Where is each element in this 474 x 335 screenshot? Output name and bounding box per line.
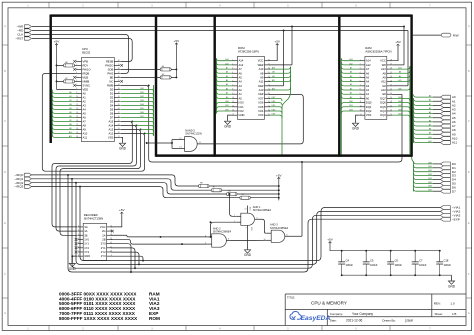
- svg-text:D4: D4: [110, 103, 114, 107]
- svg-text:A0: A0: [350, 96, 352, 99]
- svg-text:D7: D7: [110, 115, 114, 119]
- svg-text:13: 13: [110, 238, 112, 240]
- svg-text:A3: A3: [350, 83, 352, 86]
- svg-text:D: D: [468, 171, 470, 174]
- svg-text:2Y1: 2Y1: [101, 246, 106, 250]
- svg-text:SN74HC132N: SN74HC132N: [185, 131, 202, 135]
- svg-text:+5V: +5V: [119, 208, 126, 212]
- svg-text:A11: A11: [398, 79, 401, 82]
- svg-text:DB0: DB0: [140, 88, 144, 90]
- svg-text:13: 13: [360, 110, 362, 112]
- svg-text:DB5: DB5: [140, 108, 144, 110]
- svg-text:A4: A4: [226, 79, 228, 82]
- svg-text:A11: A11: [69, 135, 72, 138]
- svg-text:17: 17: [76, 124, 78, 126]
- svg-text:100nF: 100nF: [346, 263, 354, 267]
- svg-text:+5V: +5V: [274, 40, 281, 44]
- svg-text:2G: 2G: [102, 229, 106, 233]
- svg-text:A8: A8: [399, 71, 401, 74]
- svg-text:W#: W#: [382, 63, 387, 67]
- svg-text:A7: A7: [239, 67, 243, 71]
- svg-text:EasyEDA: EasyEDA: [301, 315, 331, 322]
- svg-text:WE#: WE#: [258, 63, 264, 67]
- svg-text:SYNC: SYNC: [83, 83, 91, 87]
- svg-text:23: 23: [390, 80, 392, 82]
- svg-text:2: 2: [234, 221, 235, 223]
- svg-text:6: 6: [228, 239, 229, 241]
- svg-text:14: 14: [76, 112, 78, 114]
- svg-text:D1: D1: [110, 91, 114, 95]
- svg-text:6: 6: [360, 80, 361, 82]
- svg-text:27: 27: [390, 63, 392, 65]
- svg-text:4: 4: [360, 72, 361, 74]
- svg-text:A9: A9: [69, 127, 71, 130]
- svg-text:16: 16: [110, 226, 112, 228]
- svg-text:I/O2: I/O2: [239, 109, 245, 113]
- svg-text:A9: A9: [429, 132, 431, 135]
- svg-text:DB4: DB4: [428, 178, 432, 180]
- svg-text:C: C: [468, 120, 470, 123]
- svg-text:21: 21: [118, 136, 120, 138]
- svg-text:13: 13: [179, 147, 181, 149]
- svg-text:21: 21: [390, 89, 392, 91]
- svg-text:28: 28: [118, 108, 120, 110]
- svg-text:A15: A15: [109, 119, 114, 123]
- svg-text:A10: A10: [381, 88, 386, 92]
- svg-text:9: 9: [76, 92, 77, 94]
- svg-text:A9: A9: [272, 75, 274, 78]
- svg-text:D: D: [4, 171, 6, 174]
- svg-text:DB0: DB0: [349, 101, 353, 103]
- svg-text:NC: NC: [109, 79, 113, 83]
- svg-text:1Y1: 1Y1: [84, 242, 89, 246]
- svg-text:A9: A9: [383, 75, 387, 79]
- svg-text:ROM: ROM: [149, 316, 160, 321]
- svg-text:A1: A1: [69, 95, 71, 98]
- svg-text:A9: A9: [260, 75, 264, 79]
- svg-text:A6: A6: [69, 115, 71, 118]
- svg-text:IRQB: IRQB: [83, 71, 90, 75]
- svg-text:TITLE:: TITLE:: [287, 296, 295, 300]
- svg-text:10: 10: [232, 97, 234, 99]
- svg-text:E#: E#: [383, 92, 387, 96]
- svg-text:A4: A4: [350, 79, 352, 82]
- svg-text:1Y3: 1Y3: [84, 250, 89, 254]
- svg-text:DB2: DB2: [140, 96, 144, 98]
- svg-text:8: 8: [232, 89, 233, 91]
- svg-text:15: 15: [76, 116, 78, 118]
- svg-text:15: 15: [268, 114, 270, 116]
- svg-text:5: 5: [232, 76, 233, 78]
- svg-text:PHI2O: PHI2O: [105, 63, 113, 67]
- svg-text:A6: A6: [366, 71, 370, 75]
- svg-text:65C02: 65C02: [82, 51, 91, 55]
- svg-text:20: 20: [76, 136, 78, 138]
- svg-text:30: 30: [118, 100, 120, 102]
- svg-text:A3: A3: [366, 84, 370, 88]
- svg-text:A8: A8: [69, 123, 71, 126]
- svg-text:GND: GND: [69, 267, 77, 271]
- svg-text:DQ2: DQ2: [366, 109, 372, 113]
- svg-text:+5V: +5V: [174, 39, 181, 43]
- svg-text:GND: GND: [448, 284, 456, 288]
- svg-text:GND: GND: [224, 125, 232, 129]
- svg-text:DB0: DB0: [225, 101, 229, 103]
- svg-text:VPB: VPB: [83, 59, 89, 63]
- svg-text:10: 10: [110, 251, 112, 253]
- svg-text:DB3: DB3: [140, 100, 144, 102]
- svg-text:A6: A6: [83, 115, 87, 119]
- svg-text:C6: C6: [395, 259, 399, 263]
- svg-text:A12: A12: [225, 62, 228, 65]
- svg-text:I/O5: I/O5: [258, 105, 264, 109]
- svg-text:DB1: DB1: [225, 105, 229, 107]
- svg-text:Drawn By:: Drawn By:: [382, 319, 396, 323]
- svg-text:SN74HC08NE4: SN74HC08NE4: [253, 208, 272, 212]
- svg-text:jzaun: jzaun: [405, 319, 414, 323]
- svg-text:24: 24: [390, 76, 392, 78]
- svg-text:DQ5: DQ5: [380, 105, 386, 109]
- svg-text:8: 8: [78, 255, 79, 257]
- svg-text:A13: A13: [381, 67, 386, 71]
- svg-text:A1: A1: [83, 95, 87, 99]
- svg-text:12: 12: [179, 138, 181, 140]
- svg-text:1G: 1G: [84, 225, 88, 229]
- svg-text:BE: BE: [110, 75, 114, 79]
- svg-text:A8: A8: [260, 71, 264, 75]
- svg-text:A11: A11: [381, 80, 386, 84]
- svg-text:DB7: DB7: [428, 190, 432, 192]
- svg-text:12: 12: [232, 105, 234, 107]
- svg-text:7: 7: [360, 84, 361, 86]
- svg-text:22: 22: [390, 84, 392, 86]
- svg-text:+5V: +5V: [327, 238, 334, 242]
- svg-text:MLB: MLB: [83, 75, 89, 79]
- svg-text:A3: A3: [226, 83, 228, 86]
- svg-text:DB1: DB1: [428, 166, 432, 168]
- svg-text:1.0: 1.0: [450, 301, 455, 305]
- svg-text:A8: A8: [429, 128, 431, 131]
- svg-text:DB6: DB6: [272, 101, 276, 103]
- svg-text:DB7: DB7: [272, 97, 276, 99]
- svg-text:SN74HC08NE4: SN74HC08NE4: [270, 226, 289, 230]
- svg-text:A7: A7: [350, 66, 352, 69]
- svg-text:22: 22: [118, 132, 120, 134]
- svg-text:19: 19: [76, 132, 78, 134]
- svg-text:A7: A7: [83, 119, 87, 123]
- svg-text:2A: 2A: [102, 233, 105, 237]
- svg-text:A3: A3: [239, 84, 243, 88]
- svg-text:24: 24: [118, 124, 120, 126]
- svg-text:20: 20: [268, 93, 270, 95]
- svg-text:A7: A7: [366, 67, 370, 71]
- svg-text:GND: GND: [244, 253, 252, 257]
- svg-text:A11: A11: [272, 79, 275, 82]
- svg-text:A0: A0: [366, 96, 370, 100]
- svg-text:VSS: VSS: [366, 113, 372, 117]
- svg-text:11: 11: [232, 101, 234, 103]
- svg-text:A2: A2: [239, 88, 243, 92]
- svg-text:GND: GND: [119, 147, 127, 151]
- svg-text:DB3: DB3: [428, 174, 432, 176]
- svg-text:DB6: DB6: [428, 186, 432, 188]
- svg-text:17: 17: [268, 105, 270, 107]
- svg-text:18: 18: [76, 128, 78, 130]
- svg-text:A6: A6: [350, 71, 352, 74]
- svg-text:G: G: [4, 312, 6, 315]
- svg-text:VCC: VCC: [258, 59, 264, 63]
- svg-text:1A: 1A: [84, 229, 87, 233]
- svg-text:GND: GND: [352, 127, 360, 131]
- svg-text:9: 9: [265, 232, 266, 234]
- svg-text:14: 14: [110, 234, 112, 236]
- svg-text:28: 28: [268, 59, 270, 61]
- svg-text:~RST: ~RST: [15, 37, 23, 41]
- svg-text:DB4: DB4: [140, 104, 144, 106]
- svg-text:33: 33: [118, 88, 120, 90]
- svg-text:~IRQ3: ~IRQ3: [14, 185, 23, 189]
- svg-text:A10: A10: [272, 87, 275, 90]
- svg-text:G: G: [468, 312, 470, 315]
- svg-text:PHI1O: PHI1O: [83, 67, 91, 71]
- svg-text:6: 6: [232, 80, 233, 82]
- svg-text:A6: A6: [239, 71, 243, 75]
- svg-text:DQ3: DQ3: [380, 113, 386, 117]
- svg-text:A4: A4: [239, 80, 243, 84]
- svg-text:A7: A7: [69, 119, 71, 122]
- svg-text:A7: A7: [226, 66, 228, 69]
- svg-text:A12: A12: [239, 63, 244, 67]
- svg-text:3: 3: [232, 68, 233, 70]
- svg-text:DB1: DB1: [140, 92, 144, 94]
- svg-text:I/O7: I/O7: [258, 96, 264, 100]
- svg-text:A1: A1: [429, 99, 431, 102]
- svg-text:AT28C256-15PU: AT28C256-15PU: [238, 50, 259, 54]
- svg-text:A14: A14: [366, 59, 371, 63]
- svg-text:19: 19: [390, 97, 392, 99]
- svg-text:11: 11: [110, 246, 112, 248]
- svg-text:DB5: DB5: [428, 182, 432, 184]
- svg-text:VCC: VCC: [380, 59, 386, 63]
- svg-text:DB2: DB2: [225, 109, 229, 111]
- svg-text:18: 18: [390, 101, 392, 103]
- svg-text:2: 2: [76, 64, 77, 66]
- svg-text:C5: C5: [370, 259, 374, 263]
- svg-text:3: 3: [360, 68, 361, 70]
- svg-text:+5V: +5V: [276, 173, 283, 177]
- svg-text:A1: A1: [366, 92, 370, 96]
- svg-text:D3: D3: [110, 99, 114, 103]
- svg-text:16: 16: [390, 110, 392, 112]
- svg-text:7: 7: [232, 84, 233, 86]
- svg-text:A6: A6: [429, 119, 431, 122]
- svg-text:PHI2: PHI2: [107, 71, 113, 75]
- svg-text:A14: A14: [109, 123, 114, 127]
- svg-text:4: 4: [76, 72, 77, 74]
- svg-text:C18: C18: [444, 259, 449, 263]
- svg-text:Date:: Date:: [330, 319, 337, 323]
- svg-text:A14: A14: [225, 58, 228, 61]
- svg-text:5: 5: [205, 243, 206, 245]
- svg-text:I/O4: I/O4: [258, 109, 264, 113]
- svg-text:2Y3: 2Y3: [101, 254, 106, 258]
- svg-text:29: 29: [118, 104, 120, 106]
- svg-text:31: 31: [118, 96, 120, 98]
- svg-text:VCC: VCC: [100, 225, 106, 229]
- svg-text:27: 27: [268, 63, 270, 65]
- svg-text:A2: A2: [366, 88, 370, 92]
- svg-text:14: 14: [232, 114, 234, 116]
- svg-text:RDY: RDY: [83, 63, 89, 67]
- svg-text:A0: A0: [69, 91, 71, 94]
- svg-text:+5V: +5V: [54, 40, 61, 44]
- svg-text:12: 12: [360, 105, 362, 107]
- svg-text:5: 5: [76, 76, 77, 78]
- svg-text:GND: GND: [239, 113, 245, 117]
- svg-text:A9: A9: [399, 75, 401, 78]
- svg-text:C7: C7: [419, 259, 423, 263]
- svg-text:2: 2: [78, 230, 79, 232]
- svg-text:DQ1: DQ1: [366, 105, 372, 109]
- svg-text:A4: A4: [83, 107, 87, 111]
- svg-text:A0: A0: [429, 95, 431, 98]
- svg-text:A11: A11: [259, 80, 264, 84]
- svg-text:NMIB: NMIB: [83, 79, 90, 83]
- svg-text:VSS: VSS: [108, 135, 114, 139]
- svg-text:I/O0: I/O0: [239, 101, 245, 105]
- svg-text:D2: D2: [110, 95, 114, 99]
- svg-text:9: 9: [232, 93, 233, 95]
- svg-text:I/O1: I/O1: [239, 105, 245, 109]
- svg-text:A12: A12: [366, 63, 371, 67]
- svg-text:34: 34: [118, 84, 120, 86]
- svg-text:25: 25: [118, 120, 120, 122]
- svg-text:26: 26: [390, 68, 392, 70]
- svg-text:1: 1: [234, 215, 235, 217]
- svg-text:AS6C62256A-7IPCN: AS6C62256A-7IPCN: [365, 50, 391, 54]
- svg-text:13: 13: [76, 108, 78, 110]
- svg-text:A5: A5: [350, 75, 352, 78]
- svg-text:D0: D0: [110, 87, 114, 91]
- svg-text:A13: A13: [398, 66, 401, 69]
- svg-text:14: 14: [245, 209, 247, 211]
- svg-text:Your Company: Your Company: [352, 312, 373, 316]
- svg-text:DB6: DB6: [398, 101, 402, 103]
- svg-text:I/O6: I/O6: [258, 101, 264, 105]
- svg-text:CPU & MEMORY: CPU & MEMORY: [311, 301, 347, 306]
- svg-text:19: 19: [268, 97, 270, 99]
- svg-text:10: 10: [76, 96, 78, 98]
- svg-text:16: 16: [268, 110, 270, 112]
- svg-text:A7: A7: [429, 123, 431, 126]
- svg-text:12: 12: [76, 104, 78, 106]
- svg-text:DB3: DB3: [272, 114, 276, 116]
- svg-text:1B: 1B: [84, 233, 87, 237]
- svg-text:A5: A5: [83, 111, 87, 115]
- svg-text:10: 10: [263, 239, 265, 241]
- svg-text:7: 7: [245, 228, 246, 230]
- svg-text:17: 17: [390, 105, 392, 107]
- svg-text:2Y0: 2Y0: [101, 242, 106, 246]
- svg-text:D6: D6: [110, 111, 114, 115]
- svg-text:A5: A5: [366, 75, 370, 79]
- svg-text:DB0: DB0: [428, 162, 432, 164]
- svg-text:1: 1: [360, 59, 361, 61]
- svg-text:2: 2: [232, 63, 233, 65]
- svg-text:20: 20: [390, 93, 392, 95]
- svg-text:10: 10: [360, 97, 362, 99]
- svg-text:A10: A10: [259, 88, 264, 92]
- svg-text:R/W: R/W: [453, 33, 459, 37]
- svg-text:28: 28: [390, 59, 392, 61]
- svg-text:A5: A5: [226, 75, 228, 78]
- svg-text:27: 27: [118, 112, 120, 114]
- svg-text:GND: GND: [84, 254, 90, 258]
- svg-text:3: 3: [76, 68, 77, 70]
- svg-text:1Y2: 1Y2: [84, 246, 89, 250]
- svg-text:A2: A2: [350, 87, 352, 90]
- svg-text:RWB: RWB: [107, 83, 113, 87]
- svg-text:26: 26: [118, 116, 120, 118]
- svg-text:1: 1: [78, 226, 79, 228]
- svg-text:OE#: OE#: [258, 84, 264, 88]
- svg-text:7: 7: [76, 84, 77, 86]
- svg-text:26: 26: [268, 68, 270, 70]
- svg-text:DB1: DB1: [349, 105, 353, 107]
- svg-text:4: 4: [205, 236, 206, 238]
- svg-text:14: 14: [360, 114, 362, 116]
- svg-text:38: 38: [118, 68, 120, 70]
- svg-text:D5: D5: [110, 107, 114, 111]
- svg-text:A8: A8: [83, 123, 87, 127]
- svg-text:40: 40: [118, 60, 120, 62]
- svg-text:1: 1: [232, 59, 233, 61]
- svg-text:A1: A1: [226, 92, 228, 95]
- svg-text:A2: A2: [83, 99, 87, 103]
- svg-text:A3: A3: [83, 103, 87, 107]
- svg-text:Sheet:: Sheet:: [435, 312, 444, 316]
- svg-text:A0: A0: [83, 91, 87, 95]
- svg-text:A13: A13: [272, 66, 275, 69]
- svg-text:4: 4: [232, 72, 233, 74]
- svg-text:16: 16: [76, 120, 78, 122]
- svg-text:A2: A2: [226, 87, 228, 90]
- svg-text:A5: A5: [69, 111, 71, 114]
- svg-text:11: 11: [76, 100, 78, 102]
- svg-text:2021-12-06: 2021-12-06: [346, 319, 363, 323]
- svg-text:39: 39: [118, 64, 120, 66]
- svg-text:6: 6: [76, 80, 77, 82]
- svg-text:A3: A3: [69, 103, 71, 106]
- svg-text:11: 11: [360, 101, 362, 103]
- svg-text:A8: A8: [272, 71, 274, 74]
- svg-text:DQ0: DQ0: [366, 101, 372, 105]
- svg-text:DB5: DB5: [398, 105, 402, 107]
- svg-text:3: 3: [256, 217, 257, 219]
- svg-text:1: 1: [76, 60, 77, 62]
- svg-text:A9: A9: [83, 127, 87, 131]
- svg-text:100nF: 100nF: [419, 263, 427, 267]
- svg-text:DB3: DB3: [398, 114, 402, 116]
- svg-text:G#: G#: [382, 84, 386, 88]
- svg-text:8: 8: [76, 88, 77, 90]
- svg-text:VDD: VDD: [83, 87, 89, 91]
- svg-text:A0: A0: [226, 96, 228, 99]
- svg-text:A8: A8: [383, 71, 387, 75]
- svg-text:A0: A0: [239, 96, 243, 100]
- svg-text:22: 22: [268, 84, 270, 86]
- svg-text:DQ6: DQ6: [380, 101, 386, 105]
